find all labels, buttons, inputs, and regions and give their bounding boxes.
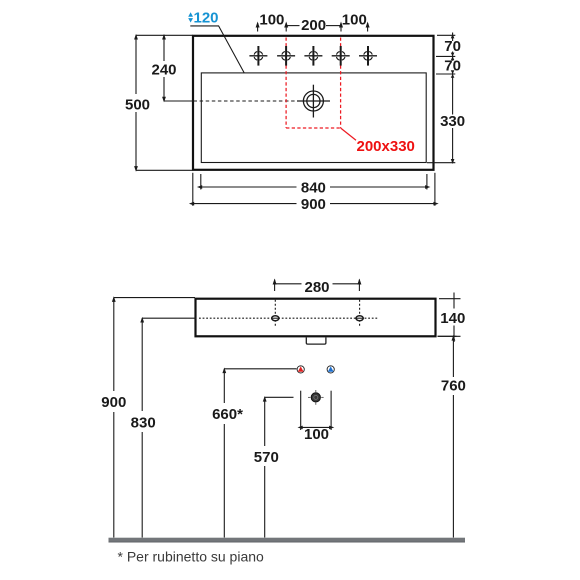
svg-text:840: 840 <box>301 180 326 197</box>
svg-text:120: 120 <box>194 10 219 27</box>
svg-text:100: 100 <box>304 426 329 443</box>
svg-text:240: 240 <box>151 61 176 78</box>
svg-text:70: 70 <box>444 58 461 75</box>
svg-text:200x330: 200x330 <box>357 138 415 155</box>
svg-text:140: 140 <box>440 310 465 327</box>
svg-text:760: 760 <box>441 378 466 395</box>
svg-text:330: 330 <box>440 113 465 130</box>
svg-text:900: 900 <box>301 196 326 213</box>
svg-text:660*: 660* <box>212 406 243 423</box>
svg-text:280: 280 <box>304 279 329 296</box>
svg-text:500: 500 <box>125 96 150 113</box>
svg-text:570: 570 <box>254 449 279 466</box>
svg-text:100: 100 <box>342 12 367 29</box>
svg-text:900: 900 <box>101 394 126 411</box>
svg-text:100: 100 <box>259 12 284 29</box>
svg-text:200: 200 <box>301 17 326 34</box>
svg-text:70: 70 <box>444 38 461 55</box>
svg-text:* Per rubinetto su piano: * Per rubinetto su piano <box>118 549 265 565</box>
svg-text:830: 830 <box>131 414 156 431</box>
